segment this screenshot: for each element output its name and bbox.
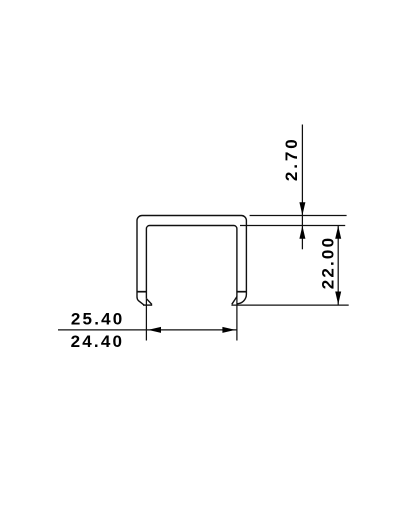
outer-top extension line bbox=[250, 215, 347, 217]
svg-text:22.00: 22.00 bbox=[318, 236, 337, 290]
left leg tip bottom line bbox=[143, 304, 152, 306]
left leg hook diagonal bbox=[147, 299, 152, 305]
right leg cross line bbox=[237, 291, 247, 293]
left leg cross line bbox=[137, 291, 146, 293]
profile outer contour bbox=[137, 216, 246, 305]
svg-text:24.40: 24.40 bbox=[71, 332, 125, 351]
svg-text:2.70: 2.70 bbox=[282, 136, 301, 181]
arrow right (25.40 dim, pointing right) bbox=[222, 327, 235, 333]
right leg hook diagonal bbox=[232, 297, 237, 305]
arrow left (25.40 dim, pointing left) bbox=[148, 327, 161, 333]
vertical dimension line 2.70 bbox=[301, 125, 303, 250]
arrow up (22.00 dim top) bbox=[335, 226, 341, 239]
right leg tip bottom line + bottom extension line for 22.00 bbox=[231, 304, 348, 306]
arrow down (22.00 dim bottom) bbox=[335, 292, 341, 305]
vertical dimension line 22.00 bbox=[337, 226, 339, 305]
left vertical extension line bbox=[145, 299, 147, 341]
inner-top extension line bbox=[240, 225, 345, 227]
horizontal dimension line 25.40/24.40 bbox=[58, 329, 237, 331]
arrow up (2.70 dim, at inner top line) bbox=[299, 226, 305, 239]
arrow down (2.70 dim, at outer top line) bbox=[299, 202, 305, 215]
profile inner contour bbox=[146, 226, 237, 299]
svg-text:25.40: 25.40 bbox=[71, 310, 125, 329]
right vertical extension line bbox=[236, 297, 238, 341]
